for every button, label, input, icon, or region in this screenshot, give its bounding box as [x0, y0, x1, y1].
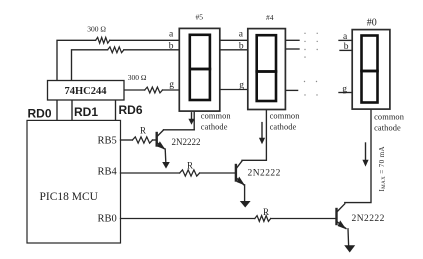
ground Q1	[162, 162, 170, 169]
svg-text:2N2222: 2N2222	[352, 214, 385, 224]
svg-text:PIC18 MCU: PIC18 MCU	[40, 191, 99, 203]
display DS5 box	[179, 28, 220, 111]
svg-text:#0: #0	[367, 17, 377, 28]
svg-text:74HC244: 74HC244	[65, 86, 108, 97]
svg-text:b: b	[344, 42, 349, 52]
wire row b stub into display0	[340, 49, 352, 51]
display DS4 box	[248, 29, 286, 110]
svg-text:RB4: RB4	[98, 167, 118, 178]
wire row b to display5	[124, 49, 179, 51]
current arrow display0	[362, 143, 368, 167]
wire row b between displays	[220, 49, 248, 51]
current arrow display4	[259, 123, 265, 145]
wire row g stub into display0	[339, 92, 352, 94]
wire row g from buffer	[124, 89, 145, 91]
display5 drop wire	[193, 111, 195, 130]
resistor R base Q2	[180, 170, 200, 176]
wire row a stub into display0	[339, 39, 352, 41]
display DS4 digit 8	[257, 35, 276, 101]
ground Q2	[240, 201, 251, 208]
display DS0 digit 8	[362, 36, 378, 103]
wire row a to display5	[110, 39, 180, 41]
display DS5 digit 8	[190, 35, 210, 100]
svg-text:2N2222: 2N2222	[172, 137, 201, 147]
Q3 emitter wire down	[347, 229, 350, 246]
svg-text:cathode: cathode	[270, 122, 297, 131]
svg-text:a: a	[169, 30, 174, 40]
buffer U2 74HC244 box	[48, 81, 125, 101]
resistor Rb	[108, 47, 124, 53]
svg-text:IMAX = 70 mA: IMAX = 70 mA	[378, 146, 387, 192]
svg-text:b: b	[239, 42, 244, 52]
resistor R base Q1	[132, 137, 152, 143]
wire RB5	[121, 139, 133, 141]
svg-text:a: a	[239, 30, 244, 40]
Q3 collector wire to display0 drop	[345, 109, 371, 203]
transistor Q1 2N2222	[155, 133, 157, 146]
wire row g to display5	[163, 89, 180, 91]
current arrow display5	[188, 113, 194, 125]
wire row a between displays	[220, 39, 248, 41]
resistor Rg 300ohm	[145, 87, 163, 93]
svg-text:RB0: RB0	[98, 214, 117, 225]
ellipsis dots between display4 and display0	[304, 33, 318, 96]
wire to Q3 base	[271, 218, 336, 220]
wire row g between displays	[220, 89, 248, 91]
wire row g stub right of display4	[285, 89, 297, 91]
svg-text:R: R	[140, 126, 146, 136]
svg-text:g: g	[342, 85, 347, 95]
svg-text:2N2222: 2N2222	[248, 169, 281, 179]
resistor R base Q3	[255, 216, 271, 222]
wire RB4	[121, 172, 180, 174]
svg-text:RD1: RD1	[74, 105, 98, 119]
Q2 emitter wire down	[244, 185, 246, 201]
Q1 collector wire to display5 drop	[164, 129, 195, 131]
svg-text:R: R	[187, 161, 193, 171]
svg-text:cathode: cathode	[201, 122, 228, 131]
svg-text:b: b	[169, 42, 174, 52]
ground Q3	[344, 245, 355, 252]
wire RD6 vertical	[115, 100, 117, 120]
svg-text:RD0: RD0	[28, 107, 52, 121]
wire row a stub right of display4	[285, 39, 299, 41]
wire row b left segment	[72, 50, 108, 81]
svg-text:common: common	[270, 112, 301, 121]
svg-text:cathode: cathode	[374, 123, 401, 132]
svg-text:300 Ω: 300 Ω	[128, 73, 147, 82]
wire row b stub right of display4	[285, 48, 299, 50]
svg-text:common: common	[374, 113, 405, 122]
display DS0 box	[352, 30, 390, 110]
wire RB0	[121, 218, 255, 220]
wire to Q2 base	[200, 172, 236, 174]
svg-text:RD6: RD6	[119, 103, 143, 117]
Q2 collector wire to display4 drop	[242, 110, 266, 161]
MCU U1 box	[27, 120, 121, 243]
wire RD0 vertical	[56, 100, 58, 120]
Q1 emitter wire down	[164, 149, 167, 162]
resistor Ra 300ohm	[96, 37, 110, 43]
wire to Q1 base	[153, 139, 157, 141]
svg-text:#5: #5	[196, 13, 204, 22]
transistor Q2 2N2222	[235, 165, 237, 181]
transistor Q3 2N2222	[335, 209, 337, 224]
wire row a left segment	[57, 40, 96, 80]
svg-text:g: g	[239, 81, 244, 91]
svg-text:300 Ω: 300 Ω	[87, 24, 106, 33]
svg-text:g: g	[169, 80, 174, 90]
svg-text:RB5: RB5	[98, 136, 117, 147]
svg-text:common: common	[201, 112, 232, 121]
svg-text:#4: #4	[266, 13, 274, 22]
svg-text:R: R	[263, 207, 269, 217]
wire RD1 vertical	[71, 100, 73, 120]
